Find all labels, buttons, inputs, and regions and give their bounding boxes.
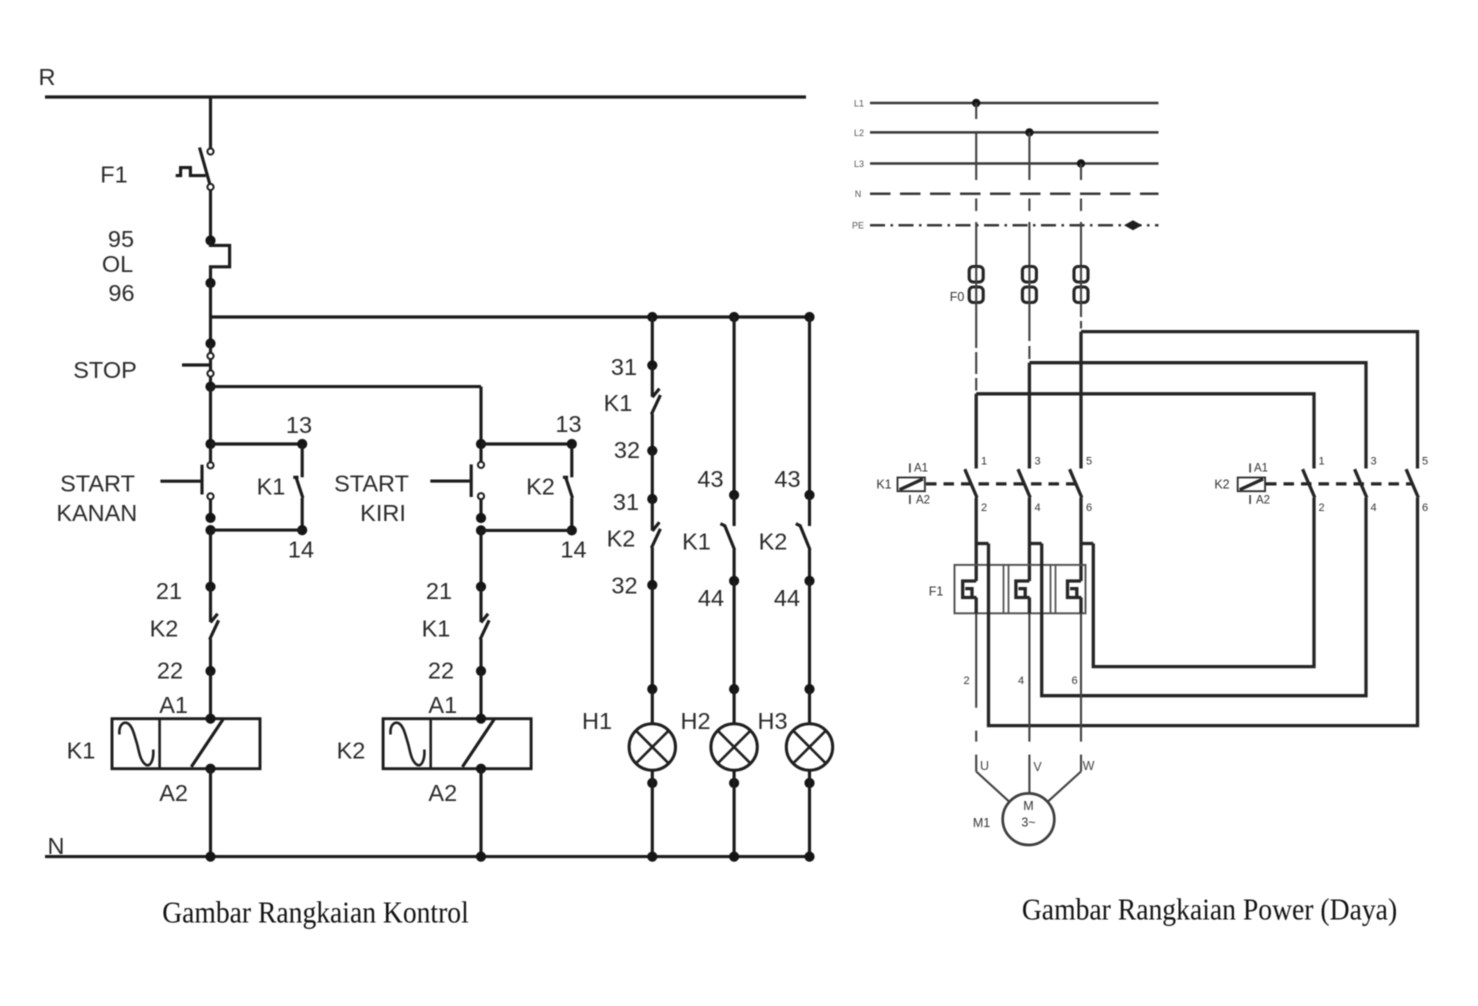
- svg-text:A2: A2: [1256, 495, 1270, 507]
- svg-text:Gambar Rangkaian Kontrol: Gambar Rangkaian Kontrol: [162, 895, 469, 930]
- fuse F0 phase L2: [1022, 267, 1036, 303]
- pushbutton STOP (NC): [182, 338, 216, 386]
- label K1 (aux contact): [257, 474, 286, 500]
- wire K2 actuator dashed link: [1266, 482, 1412, 485]
- wire 22 to coil K1: [209, 671, 212, 719]
- wire lamp H3 to N: [804, 770, 814, 856]
- fuse F0 phase L1: [969, 267, 983, 303]
- label L3: [854, 159, 864, 169]
- svg-text:A1: A1: [914, 463, 928, 475]
- motor M1 (3-phase): [1003, 793, 1055, 845]
- node 14 junction row kiri: [476, 513, 572, 536]
- heater element F1 phase 1: [963, 581, 977, 598]
- svg-text:K1: K1: [876, 478, 891, 492]
- wire rail to 43 (H2): [733, 317, 736, 495]
- svg-text:32: 32: [614, 437, 640, 463]
- svg-text:H2: H2: [680, 708, 710, 734]
- svg-text:6: 6: [1422, 502, 1428, 514]
- label 22 (right): [428, 658, 454, 684]
- contact K1 NC interlock (21-22): [480, 587, 489, 671]
- svg-text:M1: M1: [973, 816, 990, 830]
- label A1 (K2 power): [1254, 463, 1268, 475]
- wire U diagonal to motor: [976, 772, 1009, 802]
- label KIRI: [360, 500, 406, 526]
- coil symbol K2 (power): [1238, 463, 1265, 504]
- label 43 (K1): [697, 466, 723, 492]
- label pin 3 (K1): [1034, 456, 1040, 468]
- label K2 (31-32): [607, 526, 636, 552]
- contact K2 pole 1-2: [1303, 469, 1315, 497]
- node 43 (K1): [729, 490, 739, 500]
- svg-text:START: START: [334, 471, 409, 497]
- label N (power): [855, 189, 862, 199]
- svg-text:43: 43: [774, 466, 800, 492]
- node 22 (left): [205, 666, 215, 676]
- svg-text:3~: 3~: [1021, 816, 1035, 830]
- label terminal 2: [963, 675, 969, 687]
- svg-text:44: 44: [698, 585, 724, 611]
- wire heater1 exit: [975, 598, 978, 614]
- wire to K2 interlock: [209, 530, 212, 587]
- wire V down to motor: [1028, 772, 1030, 794]
- wire F1 to motor V: [1028, 613, 1030, 771]
- svg-text:KIRI: KIRI: [360, 500, 406, 526]
- wire K2 pin6 bridge to phase1: [989, 498, 1418, 726]
- svg-text:31: 31: [613, 489, 639, 515]
- svg-text:2: 2: [1318, 502, 1324, 514]
- svg-text:14: 14: [288, 537, 314, 563]
- wire W diagonal to motor: [1048, 772, 1081, 802]
- heater element F1 phase 3: [1068, 581, 1082, 598]
- overload relay contact OL (95-96): [205, 235, 229, 288]
- node N label: [48, 833, 65, 859]
- wire coil K1 to N: [209, 769, 212, 857]
- label START (kanan): [60, 471, 135, 497]
- label STOP: [73, 357, 137, 383]
- label F0: [950, 290, 965, 304]
- node H3 column top: [804, 312, 814, 322]
- heater element F1 phase 2: [1016, 581, 1030, 598]
- svg-text:KANAN: KANAN: [56, 500, 137, 526]
- svg-text:4: 4: [1370, 502, 1376, 514]
- svg-text:K2: K2: [759, 529, 788, 555]
- wire heater3 exit: [1079, 598, 1082, 614]
- wire 44 to lamp H2: [729, 581, 739, 724]
- node 13 junction (K1 branch): [205, 439, 307, 449]
- label 95: [108, 226, 134, 252]
- node 31 lower: [647, 494, 657, 504]
- label START (kiri): [334, 471, 409, 497]
- svg-text:K2: K2: [1214, 478, 1229, 492]
- contact K2 NC interlock (21-22): [210, 587, 219, 671]
- wire K2 pin2 bridge to phase3: [1093, 498, 1314, 667]
- svg-text:START: START: [60, 471, 135, 497]
- svg-text:43: 43: [697, 466, 723, 492]
- label K2 (aux contact): [526, 474, 555, 500]
- node 44 (K1): [729, 576, 739, 586]
- svg-text:44: 44: [774, 585, 800, 611]
- label 43 (K2): [774, 466, 800, 492]
- svg-text:K1: K1: [422, 616, 451, 642]
- label K2 (interlock left): [150, 616, 179, 642]
- wire K1 pin6 to F1 heater: [1081, 498, 1093, 581]
- wire rail to 43 (H3): [808, 317, 811, 495]
- breaker F1 (control fuse/switch): [176, 148, 214, 191]
- svg-text:L2: L2: [854, 128, 864, 138]
- caption power circuit: [1022, 891, 1397, 926]
- label 14 (K2 aux): [560, 537, 586, 563]
- wire fuse L1 to K1 contact 1: [975, 303, 977, 469]
- contact K1 NO (43-44) lamp H2: [720, 495, 734, 581]
- node 44 (K2): [804, 576, 814, 586]
- svg-text:2: 2: [981, 502, 987, 514]
- label K2 (coil): [337, 738, 366, 764]
- node H3 to N junction: [804, 852, 814, 862]
- svg-text:95: 95: [108, 226, 134, 252]
- svg-text:K1: K1: [604, 390, 633, 416]
- svg-text:W: W: [1083, 759, 1095, 773]
- svg-text:32: 32: [611, 573, 637, 599]
- node 22 (right): [476, 666, 486, 676]
- svg-text:OL: OL: [102, 251, 133, 277]
- node 32 lower: [647, 580, 657, 590]
- coil symbol K1 (power): [898, 463, 925, 504]
- label 31 lower: [613, 489, 639, 515]
- wire STOP branch to START KIRI: [211, 385, 482, 388]
- label H2: [680, 708, 710, 734]
- wire PE rail (dash-dot) with arrow: [870, 220, 1159, 230]
- svg-text:96: 96: [108, 280, 134, 306]
- node K1 coil to N junction: [205, 852, 215, 862]
- wire N neutral rail: [45, 855, 810, 858]
- label K1 (interlock right): [422, 616, 451, 642]
- label A2 (K2 power): [1256, 495, 1270, 507]
- svg-text:K1: K1: [67, 738, 96, 764]
- svg-text:K2: K2: [526, 474, 555, 500]
- caption control circuit: [162, 895, 469, 930]
- contact K1 NC (31-32) lamp H1: [651, 365, 660, 450]
- svg-text:K2: K2: [150, 616, 179, 642]
- node L3 tap: [1077, 159, 1085, 167]
- contact K2 NC (31-32) lamp H1: [651, 499, 660, 585]
- label F1 (overload): [929, 585, 944, 599]
- svg-text:13: 13: [286, 412, 312, 438]
- node K2 coil to N junction: [476, 852, 486, 862]
- label pin 6 (K2): [1422, 502, 1428, 514]
- label pin 3 (K2): [1370, 456, 1376, 468]
- node 43 (K2): [804, 490, 814, 500]
- lamp H2: [711, 724, 757, 770]
- label 13 (K1 aux): [286, 412, 312, 438]
- wire 44 to lamp H3: [804, 581, 814, 724]
- wire F1 to OL: [209, 190, 212, 236]
- label K2 (power coil): [1214, 478, 1229, 492]
- svg-text:22: 22: [428, 658, 454, 684]
- svg-text:13: 13: [555, 411, 581, 437]
- label H1: [582, 708, 612, 734]
- lamp H3: [786, 724, 832, 770]
- pushbutton START KIRI (NO): [430, 447, 484, 518]
- svg-text:F1: F1: [929, 585, 944, 599]
- label K1 (43-44): [682, 529, 711, 555]
- svg-text:K2: K2: [607, 526, 636, 552]
- node 13 junction (K2 branch): [476, 439, 577, 449]
- wire STOP to START KANAN node: [209, 387, 212, 444]
- node below STOP: [205, 382, 215, 392]
- svg-text:K1: K1: [682, 529, 711, 555]
- label 14 (K1 aux): [288, 537, 314, 563]
- wire L3 rail: [870, 162, 1159, 165]
- label F1: [100, 162, 127, 188]
- label terminal 4: [1018, 675, 1024, 687]
- fuse F0 phase L3: [1074, 267, 1088, 303]
- svg-text:STOP: STOP: [73, 357, 137, 383]
- label pin 2 (K2): [1318, 502, 1324, 514]
- wire L2 rail: [870, 131, 1159, 134]
- svg-text:5: 5: [1086, 456, 1092, 468]
- contact K2 pole 5-6: [1406, 469, 1418, 497]
- wire 32 to lamp H1: [647, 585, 657, 724]
- label pin 6 (K1): [1086, 502, 1092, 514]
- node 32 upper: [647, 446, 657, 456]
- wire heater2 exit: [1028, 598, 1031, 614]
- svg-text:H1: H1: [582, 708, 612, 734]
- svg-text:L1: L1: [854, 99, 864, 109]
- label KANAN: [56, 500, 137, 526]
- wire F1 to motor U: [975, 613, 977, 771]
- label K1 (coil): [67, 738, 96, 764]
- svg-text:3: 3: [1034, 456, 1040, 468]
- node 21 (left): [205, 582, 215, 592]
- label A1 (K1 power): [914, 463, 928, 475]
- label 44 (K2): [774, 585, 800, 611]
- wire coil K2 to N: [479, 769, 482, 857]
- contact K2 pole 3-4: [1355, 469, 1367, 497]
- node L1 tap: [972, 99, 980, 107]
- label 44 (K1): [698, 585, 724, 611]
- wire L1 tap down to fuse: [975, 103, 977, 267]
- svg-text:2: 2: [963, 675, 969, 687]
- label 31 upper: [611, 354, 637, 380]
- label pin 1 (K1): [981, 456, 987, 468]
- node 21 (right): [476, 582, 486, 592]
- overload relay F1 block: [955, 565, 1086, 613]
- label pin 2 (K1): [981, 502, 987, 514]
- label K1 (power coil): [876, 478, 891, 492]
- label 96: [108, 280, 134, 306]
- node 14 junction row: [205, 513, 302, 535]
- svg-text:K1: K1: [257, 474, 286, 500]
- svg-text:M: M: [1023, 799, 1033, 813]
- svg-text:A1: A1: [159, 692, 188, 718]
- wire rail to STOP: [209, 317, 212, 344]
- wire K1 pin2 to F1 heater: [976, 498, 988, 581]
- wire K2 pin4 bridge to phase2: [1042, 498, 1366, 696]
- label OL: [102, 251, 133, 277]
- node 31 upper: [647, 360, 657, 370]
- wire 22 to coil K2: [479, 671, 482, 719]
- label U: [980, 759, 989, 773]
- svg-text:21: 21: [426, 578, 452, 604]
- wire bridge L1 to K2 pin 1: [976, 394, 1314, 469]
- label A2 (K2 coil): [428, 780, 457, 806]
- svg-text:1: 1: [981, 456, 987, 468]
- label PE: [852, 221, 864, 231]
- wire branch down to START KIRI: [479, 387, 482, 444]
- wire L2 tap down to fuse: [1028, 132, 1030, 266]
- svg-text:21: 21: [156, 578, 182, 604]
- label pin 4 (K2): [1370, 502, 1376, 514]
- svg-text:A1: A1: [428, 692, 457, 718]
- wire lamp H1 to N: [647, 770, 657, 856]
- wire top lamp rail: [211, 315, 810, 318]
- svg-text:N: N: [48, 833, 65, 859]
- svg-text:L3: L3: [854, 159, 864, 169]
- wire from R rail down to F1: [209, 97, 212, 149]
- svg-text:K2: K2: [337, 738, 366, 764]
- svg-text:V: V: [1033, 760, 1042, 774]
- svg-text:A2: A2: [428, 780, 457, 806]
- wire rail to 31 (H1): [651, 317, 654, 365]
- svg-text:N: N: [855, 189, 862, 199]
- svg-text:1: 1: [1318, 456, 1324, 468]
- svg-text:U: U: [980, 759, 989, 773]
- svg-text:A1: A1: [1254, 463, 1268, 475]
- node H2 to N junction: [729, 852, 739, 862]
- coil contactor K2: [383, 714, 531, 774]
- label pin 4 (K1): [1034, 502, 1040, 514]
- svg-text:31: 31: [611, 354, 637, 380]
- svg-text:5: 5: [1422, 456, 1428, 468]
- svg-text:6: 6: [1071, 675, 1077, 687]
- label K2 (43-44): [759, 529, 788, 555]
- svg-text:22: 22: [157, 658, 183, 684]
- wire bridge L3 to K2 pin 5: [1081, 332, 1418, 469]
- label A2 (K1 coil): [159, 780, 188, 806]
- label L1: [854, 99, 864, 109]
- wire 32 to 31 (H1): [651, 451, 654, 499]
- node H2 column top: [729, 312, 739, 322]
- wire to K1 interlock: [479, 530, 482, 586]
- svg-text:H3: H3: [757, 708, 787, 734]
- wire K1 actuator dashed link: [926, 482, 1076, 485]
- svg-text:A2: A2: [159, 780, 188, 806]
- node L2 tap: [1025, 128, 1033, 136]
- contact K2 aux NO (13-14) parallel: [563, 444, 577, 536]
- wire OL to top lamp rail: [209, 283, 212, 317]
- lamp H1: [629, 724, 675, 770]
- label 21 (left): [156, 578, 182, 604]
- node H1 to N junction: [647, 852, 657, 862]
- wire L3 tap down to fuse: [1080, 164, 1082, 267]
- contact K1 pole 1-2: [965, 469, 977, 497]
- pushbutton START KANAN (NO): [160, 447, 213, 518]
- svg-text:14: 14: [560, 537, 586, 563]
- label 21 (right): [426, 578, 452, 604]
- label 22 (left): [157, 658, 183, 684]
- label W: [1083, 759, 1095, 773]
- wire lamp H2 to N: [729, 770, 739, 856]
- svg-text:6: 6: [1086, 502, 1092, 514]
- label pin 1 (K2): [1318, 456, 1324, 468]
- contact K1 aux NO (13-14) parallel: [293, 444, 307, 535]
- svg-text:PE: PE: [852, 221, 864, 231]
- wire R supply rail: [45, 95, 806, 98]
- contact K1 pole 5-6: [1070, 469, 1082, 497]
- label A1 (K1 coil): [159, 692, 188, 718]
- svg-text:A2: A2: [916, 495, 930, 507]
- svg-text:R: R: [39, 64, 56, 90]
- svg-text:4: 4: [1034, 502, 1040, 514]
- label H3: [757, 708, 787, 734]
- wire F1 to motor W: [1080, 613, 1082, 771]
- svg-text:3: 3: [1370, 456, 1376, 468]
- wire bridge L2 to K2 pin 3: [1029, 363, 1366, 469]
- label L2: [854, 128, 864, 138]
- contact K2 NO (43-44) lamp H3: [796, 495, 810, 581]
- wire K1 pin4 to F1 heater: [1029, 498, 1041, 581]
- svg-text:4: 4: [1018, 675, 1024, 687]
- label 13 (K2 aux): [555, 411, 581, 437]
- node R label: [39, 64, 56, 90]
- svg-text:F0: F0: [950, 290, 965, 304]
- label A1 (K2 coil): [428, 692, 457, 718]
- label V: [1033, 760, 1042, 774]
- label pin 5 (K2): [1422, 456, 1428, 468]
- label terminal 6: [1071, 675, 1077, 687]
- wire fuse L3 to K1 contact 5: [1080, 303, 1082, 469]
- wire L1 rail: [870, 102, 1159, 105]
- svg-text:Gambar Rangkaian Power (Daya): Gambar Rangkaian Power (Daya): [1022, 891, 1397, 926]
- label 32 lower: [611, 573, 637, 599]
- wire fuse L2 to K1 contact 3: [1028, 303, 1030, 469]
- label 32 upper: [614, 437, 640, 463]
- label K1 (31-32): [604, 390, 633, 416]
- coil contactor K1: [112, 714, 260, 774]
- contact K1 pole 3-4: [1018, 469, 1030, 497]
- label A2 (K1 power): [916, 495, 930, 507]
- svg-text:F1: F1: [100, 162, 127, 188]
- wire N rail (dashed): [870, 193, 1159, 196]
- label pin 5 (K1): [1086, 456, 1092, 468]
- node H1 column top: [647, 312, 657, 322]
- label M1: [973, 816, 990, 830]
